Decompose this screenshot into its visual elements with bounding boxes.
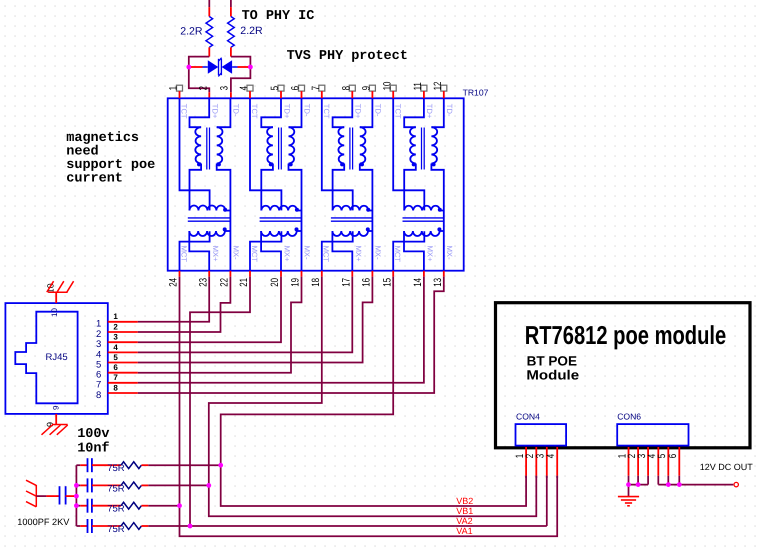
- pin 6 pad square: [299, 85, 305, 91]
- T4 choke top winding: [404, 206, 440, 211]
- net RJ3 to TR pin20: [138, 277, 281, 343]
- T1 core line 2: [209, 128, 211, 170]
- T3 left winding polarity dot: [340, 162, 344, 166]
- CON4 pin 2 stub: [535, 447, 537, 476]
- pin 20 stub: [280, 271, 282, 277]
- pin 1 stub: [179, 91, 181, 98]
- svg-text:4: 4: [113, 343, 118, 352]
- T1 choke bottom winding right lead: [225, 230, 231, 232]
- pin 3 stub: [230, 92, 232, 98]
- svg-text:TD+: TD+: [211, 104, 220, 119]
- junction TVS left: [186, 65, 191, 70]
- RJ45 pin 3 stub: [108, 341, 138, 343]
- pin 16 stub: [371, 271, 373, 277]
- net 12V out: [658, 484, 733, 486]
- pin 10 pad square: [390, 85, 396, 91]
- T3 left winding bottom lead: [333, 164, 345, 211]
- CON6 pin 1 stub: [628, 447, 630, 476]
- pin 11 stub: [423, 91, 425, 98]
- T3 TD+ lead: [333, 98, 353, 127]
- RJ45 pin 2 stub: [108, 331, 138, 333]
- pin 15 stub: [392, 271, 394, 277]
- svg-text:BT POE: BT POE: [527, 353, 577, 368]
- svg-text:MX+: MX+: [426, 246, 435, 262]
- svg-text:10: 10: [381, 81, 393, 90]
- svg-text:6: 6: [667, 454, 679, 459]
- T4 MCT lead: [393, 231, 424, 271]
- pin 22 stub: [229, 271, 231, 277]
- CON4 pin 3 stub: [546, 447, 548, 476]
- svg-text:75R: 75R: [107, 483, 125, 494]
- svg-text:TCT: TCT: [180, 104, 189, 119]
- svg-text:17: 17: [340, 278, 352, 287]
- svg-text:1: 1: [113, 312, 118, 321]
- termination common vertical: [75, 465, 77, 526]
- svg-text:1: 1: [168, 86, 180, 91]
- svg-text:14: 14: [412, 278, 424, 287]
- T4 center-tap lead TCT: [393, 98, 424, 210]
- svg-text:18: 18: [310, 278, 322, 287]
- T2 MX+ lead: [261, 231, 281, 271]
- RJ45 pin 4 stub: [108, 351, 138, 353]
- row4 cap to resistor lead: [92, 525, 121, 527]
- junction VA2 row4: [188, 524, 193, 529]
- pin 12 pad square: [441, 85, 447, 91]
- T1 MCT lead: [180, 231, 210, 271]
- net RJ8 to TR pin13: [138, 277, 444, 393]
- T2 core line 1: [278, 128, 280, 170]
- T2 choke bottom winding: [261, 231, 297, 236]
- T1 primary right winding: [217, 127, 223, 163]
- net RJ6 to TR pin19: [138, 277, 302, 373]
- T3 TD- lead: [360, 98, 373, 127]
- capacitor 1000PF 2KV plate 2: [65, 486, 67, 504]
- svg-text:CON4: CON4: [516, 411, 540, 421]
- row4 net stub: [76, 525, 80, 527]
- svg-text:7: 7: [113, 373, 118, 382]
- net VB2 TR pin15 to CON4 pin1: [221, 277, 526, 506]
- resistor 75R row3 zigzag: [121, 502, 141, 509]
- T4 choke bottom winding right lead: [440, 230, 444, 232]
- T3 MX+ lead: [332, 231, 352, 271]
- T4 choke bottom winding: [404, 231, 440, 236]
- pin 8 pad square: [349, 85, 355, 91]
- svg-text:16: 16: [361, 278, 373, 287]
- junction VB2 row1: [218, 463, 223, 468]
- T3 core line 1: [349, 128, 351, 170]
- T4 primary right winding: [431, 127, 437, 163]
- T2 TD+ lead: [261, 98, 281, 127]
- svg-text:VA1: VA1: [456, 526, 472, 536]
- capacitor 10nf row3 plate 2: [91, 499, 93, 513]
- 1000PF right lead: [66, 495, 77, 497]
- T1 TD+ lead: [190, 98, 210, 127]
- row2 right stub: [141, 484, 148, 486]
- net VA1 TR pin24 to CON4 pin4: [180, 277, 558, 537]
- T2 primary left winding: [267, 127, 273, 163]
- capacitor 10nf row3 plate 1: [87, 499, 89, 513]
- row3 net stub: [76, 505, 80, 507]
- pin 24 stub: [179, 271, 181, 277]
- svg-text:TCT: TCT: [393, 104, 402, 119]
- RJ45 pin 8 stub: [108, 392, 138, 394]
- capacitor 1000PF 2KV plate 1: [59, 486, 61, 504]
- svg-text:TD+: TD+: [425, 104, 434, 119]
- RJ45 pin 1 stub: [108, 321, 138, 323]
- junction CON6 pin5: [666, 482, 671, 487]
- row4 cap left lead: [80, 525, 87, 527]
- gnd drop: [628, 485, 630, 497]
- T2 choke top winding: [261, 206, 297, 211]
- T3 right winding polarity dot: [360, 162, 364, 166]
- junction CON6 pin6: [677, 482, 682, 487]
- CON4 pin 1 stub: [525, 447, 527, 476]
- junction TVS right: [248, 65, 253, 70]
- T4 MX+ lead: [404, 231, 424, 271]
- capacitor 10nf row2 plate 1: [87, 478, 89, 492]
- svg-text:MX-: MX-: [303, 246, 312, 260]
- capacitor 10nf row4 plate 2: [91, 519, 93, 533]
- svg-text:TCT: TCT: [250, 104, 259, 119]
- svg-text:current: current: [66, 171, 123, 186]
- T2 choke bottom polarity dot: [295, 227, 299, 231]
- pin 23 stub: [208, 271, 210, 277]
- pin 8 stub: [351, 91, 353, 98]
- T3 primary left winding: [338, 127, 344, 163]
- T1 choke bottom winding: [189, 231, 225, 236]
- svg-text:19: 19: [290, 278, 302, 287]
- svg-text:TCT: TCT: [322, 104, 331, 119]
- connector CON4 body: [516, 424, 567, 446]
- net RJ5 to TR pin16: [138, 277, 373, 363]
- T1 left winding bottom lead: [190, 164, 202, 211]
- svg-text:RJ45: RJ45: [46, 352, 68, 363]
- svg-text:75R: 75R: [107, 524, 125, 535]
- T3 right winding lead to MX-: [360, 164, 373, 271]
- T3 choke top winding: [333, 206, 369, 211]
- T2 choke core line 2: [260, 220, 302, 222]
- pin 11 pad square: [421, 85, 427, 91]
- svg-text:6: 6: [113, 363, 118, 372]
- svg-text:RT76812 poe module: RT76812 poe module: [525, 320, 727, 350]
- svg-text:MCT: MCT: [250, 246, 259, 263]
- RJ45 pin 7 stub: [108, 382, 138, 384]
- T4 core line 1: [421, 128, 423, 170]
- row3 right stub: [141, 505, 148, 507]
- pin 4 stub: [249, 91, 251, 98]
- CON6 pin 3 stub: [647, 447, 649, 476]
- svg-text:10: 10: [50, 308, 59, 317]
- svg-text:9: 9: [361, 86, 373, 91]
- pin 10 stub: [392, 91, 394, 98]
- T2 choke core line 1: [260, 217, 302, 219]
- row4 right stub: [141, 525, 148, 527]
- svg-text:8: 8: [340, 86, 352, 91]
- T2 TD- lead: [289, 98, 302, 127]
- svg-text:TD-: TD-: [445, 104, 454, 117]
- pin 1 pad square: [177, 85, 183, 91]
- T1 TD- lead: [217, 98, 231, 127]
- T4 right winding polarity dot: [432, 162, 436, 166]
- capacitor 10nf row1 plate 1: [87, 458, 89, 472]
- T1 choke top winding: [190, 205, 226, 210]
- svg-text:12V DC OUT: 12V DC OUT: [700, 462, 754, 472]
- T3 core line 2: [352, 128, 354, 170]
- module RT76812 outline: [496, 303, 751, 448]
- junction VA1 row3: [177, 503, 182, 508]
- RJ45 pin 6 stub: [108, 372, 138, 374]
- svg-text:15: 15: [381, 278, 393, 287]
- svg-text:12: 12: [432, 81, 444, 90]
- net RJ4 to TR pin17: [138, 277, 352, 353]
- resistor 75R row4 zigzag: [121, 523, 141, 530]
- svg-text:8: 8: [113, 383, 118, 392]
- T1 left winding polarity dot: [197, 162, 201, 166]
- pin 19 stub: [301, 271, 303, 277]
- resistor 2.2R left top lead: [208, 0, 210, 7]
- junction termination row3: [74, 503, 79, 508]
- svg-text:100v: 100v: [77, 427, 109, 442]
- T2 left winding bottom lead: [261, 164, 273, 211]
- svg-text:2.2R: 2.2R: [240, 25, 263, 37]
- svg-text:4: 4: [545, 454, 557, 459]
- junction 1000PF tap: [74, 494, 79, 499]
- port 12V DC OUT circle: [734, 482, 738, 486]
- T3 choke core line 1: [331, 217, 373, 219]
- TVS diode D? bidirectional: [208, 58, 232, 77]
- junction CON6 pin1: [626, 482, 631, 487]
- pin 14 stub: [423, 271, 425, 277]
- svg-text:TD+: TD+: [282, 104, 291, 119]
- svg-text:MX+: MX+: [283, 246, 292, 262]
- svg-text:75R: 75R: [107, 463, 125, 474]
- pin 5 pad square: [278, 85, 284, 91]
- TVS right blue lead: [232, 66, 237, 68]
- wire TVS left loop: [189, 57, 210, 93]
- T4 primary left winding: [410, 127, 416, 163]
- row1 net wire: [148, 464, 220, 466]
- svg-text:TR107: TR107: [463, 87, 489, 97]
- power ground symbol: [618, 497, 639, 506]
- T3 choke top polarity dot: [366, 208, 370, 212]
- svg-text:1000PF 2KV: 1000PF 2KV: [17, 517, 70, 527]
- T3 primary right winding: [360, 127, 366, 163]
- row4 net wire: [148, 525, 547, 527]
- svg-text:11: 11: [412, 82, 424, 90]
- svg-text:VA2: VA2: [456, 516, 472, 526]
- T2 MCT lead: [250, 231, 281, 271]
- T3 choke core line 2: [331, 220, 373, 222]
- resistor 75R row2 zigzag: [121, 482, 141, 489]
- pin 7 stub: [321, 91, 323, 98]
- T4 TD- lead: [431, 98, 443, 127]
- T2 right winding lead to MX-: [289, 164, 302, 271]
- svg-text:13: 13: [432, 278, 444, 287]
- T3 choke top winding right lead: [368, 210, 372, 212]
- pin 6 stub: [301, 91, 303, 98]
- svg-text:75R: 75R: [107, 504, 125, 515]
- row2 net stub: [76, 484, 80, 486]
- resistor 75R row1 zigzag: [121, 462, 141, 469]
- row2 cap to resistor lead: [92, 484, 121, 486]
- svg-text:9: 9: [51, 405, 60, 410]
- row1 cap to resistor lead: [92, 464, 121, 466]
- CON6 pin 4 stub: [657, 447, 659, 476]
- svg-text:8: 8: [96, 390, 101, 401]
- TVS left lead: [190, 66, 203, 68]
- T1 right winding lead to MX-: [217, 164, 231, 271]
- svg-text:TD-: TD-: [374, 104, 383, 117]
- RJ45 shield pin 9 stub: [55, 414, 57, 425]
- pin 2 stub: [208, 92, 210, 98]
- row3 cap left lead: [80, 505, 87, 507]
- pin 4 pad square: [247, 85, 253, 91]
- capacitor 10nf row2 plate 2: [91, 478, 93, 492]
- svg-text:10nf: 10nf: [77, 440, 109, 456]
- row2 cap left lead: [80, 484, 87, 486]
- svg-text:MX-: MX-: [373, 246, 382, 260]
- row1 right stub: [141, 464, 148, 466]
- svg-text:VB1: VB1: [456, 506, 473, 516]
- pin 12 stub: [443, 91, 445, 98]
- T1 choke core line 1: [188, 217, 230, 219]
- resistor 2.2R right zigzag body: [228, 17, 235, 48]
- svg-text:2.2R: 2.2R: [180, 25, 203, 37]
- T1 core line 1: [206, 128, 208, 170]
- junction termination row2: [74, 483, 79, 488]
- T4 right winding lead to MX-: [431, 164, 443, 271]
- T3 MCT lead: [322, 231, 353, 271]
- svg-text:MX+: MX+: [211, 246, 220, 262]
- net VA2 drop to CON4 pin3: [546, 476, 548, 526]
- CON6 pin 5 stub: [667, 447, 669, 476]
- row2 net wire: [148, 484, 209, 486]
- svg-text:5: 5: [269, 86, 281, 91]
- T4 choke bottom polarity dot: [437, 227, 441, 231]
- svg-text:MCT: MCT: [393, 246, 402, 263]
- T3 choke bottom winding right lead: [368, 230, 372, 232]
- junction CON6 pin2: [636, 482, 641, 487]
- net VB1 TR pin18 to CON4 pin2: [209, 277, 537, 517]
- T2 primary right winding: [289, 127, 295, 163]
- net RJ1 to TR pin23: [138, 277, 209, 322]
- T2 choke top winding right lead: [297, 210, 301, 212]
- row1 net stub: [76, 464, 80, 466]
- capacitor 10nf row1 plate 2: [91, 458, 93, 472]
- TVS left blue lead: [203, 66, 208, 68]
- svg-text:Module: Module: [526, 367, 579, 382]
- T3 choke bottom winding: [332, 231, 368, 236]
- wire ground to 1000PF: [36, 495, 46, 497]
- svg-text:3: 3: [113, 333, 118, 342]
- TVS right lead: [238, 66, 250, 68]
- svg-text:3: 3: [219, 86, 231, 91]
- wire TVS right loop: [231, 57, 251, 93]
- pin 9 stub: [371, 91, 373, 98]
- svg-text:MX-: MX-: [445, 246, 454, 260]
- T2 choke top polarity dot: [295, 208, 299, 212]
- transformer TR107 body outline: [168, 98, 464, 270]
- pin 7 pad square: [319, 85, 325, 91]
- svg-text:2: 2: [197, 86, 209, 91]
- svg-text:6: 6: [290, 86, 302, 91]
- svg-text:TD+: TD+: [354, 104, 363, 119]
- T1 choke top polarity dot: [223, 208, 227, 212]
- capacitor 10nf row4 plate 1: [87, 519, 89, 533]
- svg-text:23: 23: [197, 278, 209, 287]
- junction VB1 row2: [206, 483, 211, 488]
- svg-text:CON6: CON6: [617, 411, 641, 421]
- svg-text:4: 4: [238, 86, 250, 91]
- RJ45 jack inner outline: [15, 312, 77, 404]
- row3 cap to resistor lead: [92, 505, 121, 507]
- net VA2 riser TR pin21 to row4: [190, 277, 250, 526]
- T1 choke top winding right lead: [225, 210, 230, 212]
- pin 13 stub: [443, 271, 445, 277]
- svg-text:MCT: MCT: [179, 246, 188, 263]
- T1 MX+ lead: [189, 231, 209, 271]
- net RJ2 to TR pin22: [138, 277, 231, 332]
- svg-text:TVS PHY protect: TVS PHY protect: [287, 49, 408, 64]
- svg-text:MCT: MCT: [322, 246, 331, 263]
- T4 choke top polarity dot: [438, 208, 442, 212]
- resistor 2.2R right top lead: [230, 0, 232, 7]
- CON6 pin 2 stub: [637, 447, 639, 476]
- CON6 pin 6 stub: [678, 447, 680, 476]
- pin 5 stub: [280, 91, 282, 98]
- connector RJ45 body: [5, 303, 107, 414]
- T4 choke top winding right lead: [440, 210, 444, 212]
- chassis ground at 1000PF cap: [26, 480, 36, 507]
- CON4 pin 4 stub: [556, 447, 558, 476]
- pin 21 stub: [249, 271, 251, 277]
- svg-text:5: 5: [113, 353, 118, 362]
- pin 17 stub: [351, 271, 353, 277]
- svg-text:2: 2: [113, 322, 118, 331]
- T1 choke bottom polarity dot: [223, 227, 227, 231]
- resistor 2.2R left zigzag body: [206, 17, 213, 48]
- T4 core line 2: [423, 128, 425, 170]
- svg-text:VB2: VB2: [456, 496, 473, 506]
- chassis ground at RJ45 shield top: [47, 281, 74, 292]
- T2 left winding polarity dot: [269, 162, 273, 166]
- T3 choke bottom polarity dot: [366, 227, 370, 231]
- row3 net wire: [148, 505, 179, 507]
- pin 9 pad square: [369, 85, 375, 91]
- T2 choke bottom winding right lead: [297, 230, 302, 232]
- svg-text:24: 24: [168, 278, 180, 287]
- T3 center-tap lead TCT: [322, 98, 353, 210]
- svg-text:TD-: TD-: [232, 104, 241, 117]
- connector CON6 body: [617, 424, 688, 446]
- T1 choke core line 2: [188, 220, 230, 222]
- svg-text:21: 21: [238, 278, 250, 287]
- T2 core line 2: [280, 128, 282, 170]
- row1 cap left lead: [80, 464, 87, 466]
- T4 left winding bottom lead: [404, 164, 416, 211]
- T2 center-tap lead TCT: [250, 98, 281, 210]
- T4 TD+ lead: [404, 98, 424, 127]
- svg-text:7: 7: [310, 86, 322, 91]
- chassis ground at RJ45 shield bottom: [42, 425, 68, 435]
- T1 center-tap lead TCT: [180, 98, 210, 210]
- svg-text:TO PHY IC: TO PHY IC: [242, 9, 315, 24]
- svg-text:TD-: TD-: [303, 104, 312, 117]
- svg-text:MX-: MX-: [231, 246, 240, 260]
- svg-text:22: 22: [219, 278, 231, 287]
- RJ45 pin 5 stub: [108, 362, 138, 364]
- T4 left winding polarity dot: [412, 162, 416, 166]
